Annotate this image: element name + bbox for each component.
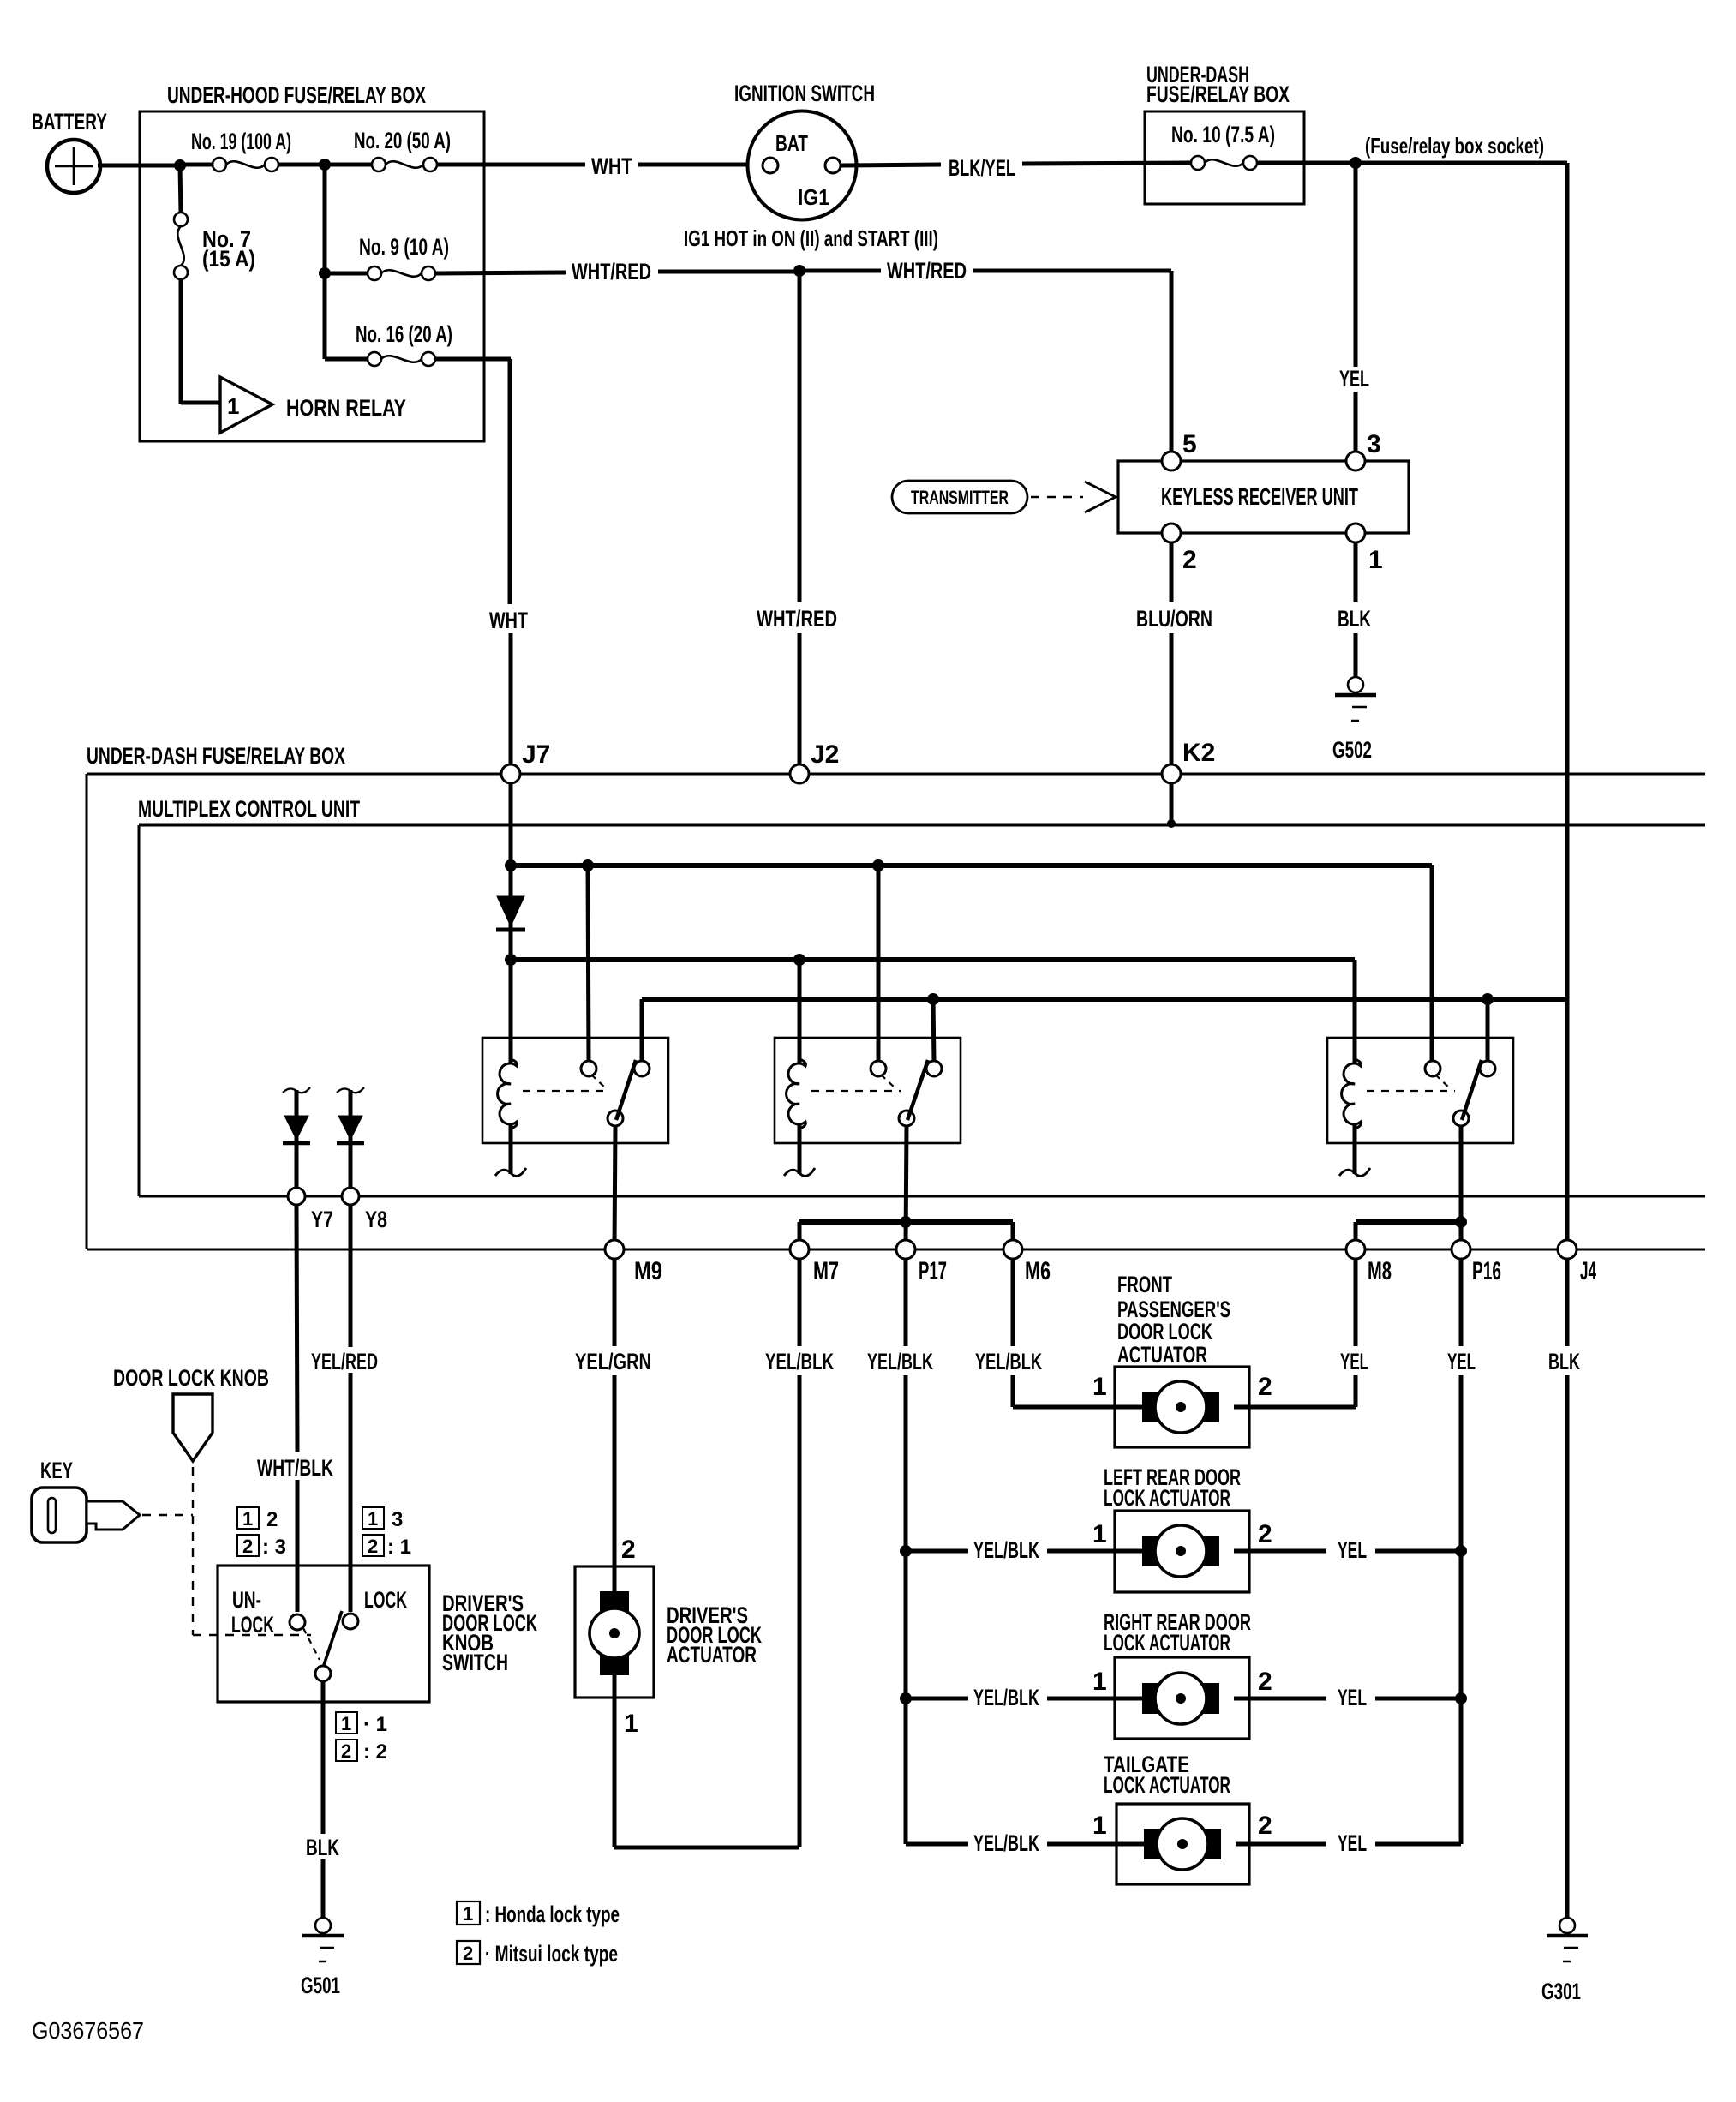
svg-text:J2: J2	[811, 740, 839, 769]
svg-text:UNDER-HOOD FUSE/RELAY BOX: UNDER-HOOD FUSE/RELAY BOX	[167, 82, 426, 108]
ground G301	[1541, 1918, 1588, 2004]
svg-text:J4: J4	[1580, 1257, 1596, 1285]
connector P17	[896, 1240, 947, 1285]
node bus1 relay2 tap	[872, 859, 884, 871]
svg-text:P16: P16	[1472, 1257, 1501, 1285]
node P17 bracket junction	[900, 1216, 912, 1228]
svg-text:YEL: YEL	[1447, 1349, 1476, 1374]
door lock knob	[113, 1365, 269, 1461]
svg-text:2: 2	[463, 1943, 473, 1964]
svg-text:M7: M7	[813, 1257, 839, 1285]
svg-text:ACTUATOR: ACTUATOR	[1117, 1342, 1207, 1368]
svg-text:WHT/RED: WHT/RED	[757, 606, 837, 632]
svg-text:FUSE/RELAY BOX: FUSE/RELAY BOX	[1146, 81, 1290, 107]
svg-text:G501: G501	[301, 1973, 340, 1998]
svg-text:IG1: IG1	[798, 184, 829, 210]
lock-type annotation above unlock	[237, 1507, 286, 1559]
svg-text:1: 1	[463, 1903, 473, 1925]
driver's door lock actuator	[575, 1566, 762, 1698]
pin 2 driver actuator	[621, 1536, 636, 1564]
svg-text:2: 2	[266, 1508, 278, 1531]
wire YEL M8 return	[1234, 1259, 1368, 1407]
svg-text:YEL/BLK: YEL/BLK	[975, 1349, 1042, 1374]
svg-text:1: 1	[624, 1710, 638, 1738]
svg-text:2: 2	[1258, 1668, 1272, 1696]
wire WHT/RED fuse9 to J2 drop	[435, 259, 795, 284]
svg-text:G301: G301	[1541, 1979, 1581, 2004]
svg-text:Y8: Y8	[365, 1207, 387, 1232]
svg-text:LOCK: LOCK	[364, 1587, 407, 1613]
node bus1 left junction	[505, 859, 517, 871]
pin 2 left rear actuator	[1258, 1520, 1272, 1548]
svg-text:M8: M8	[1368, 1257, 1392, 1285]
fuse No.16 (20 A)	[356, 321, 452, 366]
svg-text:SWITCH: SWITCH	[442, 1650, 508, 1675]
svg-text:BLK/YEL: BLK/YEL	[949, 155, 1015, 181]
svg-text:IG1 HOT in ON (II) and START (: IG1 HOT in ON (II) and START (III)	[684, 225, 938, 251]
transmitter	[892, 481, 1027, 513]
connector M8	[1346, 1240, 1392, 1285]
svg-text:BLK: BLK	[1338, 606, 1371, 632]
connector K2	[1162, 739, 1215, 783]
under-hood fuse/relay box	[140, 82, 484, 441]
node bus3 relay2 tap	[927, 993, 939, 1005]
svg-text:2: 2	[242, 1536, 253, 1557]
connector M7	[790, 1240, 839, 1285]
front passenger's door lock actuator	[1115, 1272, 1249, 1447]
lock-type annotation above lock	[362, 1507, 411, 1559]
wire relay2 left contact feed	[877, 865, 881, 1063]
svg-text:LOCK ACTUATOR: LOCK ACTUATOR	[1104, 1485, 1230, 1511]
node YEL branch junction	[1350, 157, 1362, 169]
bracket wire M8-P16	[1356, 1222, 1461, 1244]
door lock relay 1 (driver)	[482, 1038, 668, 1176]
svg-text:: 1: : 1	[387, 1536, 411, 1559]
node fuse20 junction	[319, 159, 331, 171]
figure number G03676567	[32, 2017, 144, 2044]
fuse No.7 (15 A)	[174, 165, 255, 279]
door lock relay 3	[1327, 1038, 1513, 1176]
node P17 right-rear tap	[900, 1692, 912, 1704]
svg-text:DOOR LOCK: DOOR LOCK	[1117, 1319, 1212, 1344]
under-dash fuse/relay box (top)	[1145, 62, 1304, 204]
svg-text:· Mitsui lock type: · Mitsui lock type	[485, 1941, 618, 1967]
wire J2 to relay2 coil	[798, 960, 802, 1063]
wire K2 stub to multiplex top	[1167, 783, 1176, 828]
svg-text:1: 1	[368, 1508, 378, 1530]
fuse No.19 (100 A)	[180, 129, 291, 171]
svg-text:1: 1	[1092, 1812, 1107, 1840]
node P16 bracket junction	[1455, 1216, 1467, 1228]
switch lever	[324, 1611, 342, 1665]
wire fuse/relay box socket down to J4	[1565, 163, 1570, 1918]
svg-text:3: 3	[392, 1508, 403, 1531]
pin 1 driver actuator	[624, 1710, 638, 1738]
connector P16	[1452, 1240, 1501, 1285]
connector M9	[605, 1240, 662, 1285]
ground G502	[1332, 677, 1376, 763]
svg-text:1: 1	[1368, 546, 1383, 574]
svg-text:FRONT: FRONT	[1117, 1272, 1172, 1297]
wire Y7 to unlock switch	[296, 1206, 297, 1612]
svg-text:: 3: : 3	[262, 1536, 286, 1559]
wire relay1 common to M9	[614, 1126, 615, 1247]
wire BLK pin1 to ground	[1338, 542, 1371, 677]
svg-text:ACTUATOR: ACTUATOR	[667, 1642, 757, 1668]
svg-text:YEL: YEL	[1338, 1830, 1367, 1856]
label BLK on J4 wire	[1548, 1349, 1580, 1374]
svg-text:(15 A): (15 A)	[202, 246, 255, 272]
pin 2	[1162, 524, 1197, 574]
lock-type annotation below switch	[336, 1712, 387, 1764]
wire YEL/BLK P17 trunk	[867, 1259, 968, 1844]
diode D1 (multiplex)	[496, 896, 525, 930]
wire YEL P16 trunk	[1375, 1259, 1476, 1844]
svg-text:2: 2	[1182, 546, 1197, 574]
svg-text:WHT/RED: WHT/RED	[572, 259, 651, 284]
label WHT/BLK	[257, 1455, 333, 1481]
svg-text:· 1: · 1	[363, 1713, 387, 1736]
wire relay2 common to P17 junction	[906, 1126, 907, 1244]
pin 1 front passenger actuator	[1092, 1373, 1107, 1401]
connector J2	[790, 740, 839, 783]
bus wire 2 (coil feed)	[511, 960, 1355, 1063]
node bus2 J2 junction	[793, 954, 805, 966]
svg-text:YEL/RED: YEL/RED	[311, 1349, 378, 1374]
svg-text:No. 16 (20 A): No. 16 (20 A)	[356, 321, 452, 347]
wire relay3 common to P16 junction	[1459, 1126, 1464, 1244]
svg-text:YEL: YEL	[1339, 366, 1369, 392]
svg-text:G502: G502	[1332, 737, 1372, 763]
svg-text:YEL/GRN: YEL/GRN	[575, 1349, 651, 1374]
fuse No.20 (50 A)	[354, 128, 451, 171]
svg-text:1: 1	[227, 393, 239, 419]
svg-text:G03676567: G03676567	[32, 2017, 144, 2044]
svg-text:No. 20 (50 A): No. 20 (50 A)	[354, 128, 451, 153]
svg-text:1: 1	[1092, 1668, 1107, 1696]
svg-text:P17: P17	[919, 1257, 947, 1285]
pin 1 right rear actuator	[1092, 1668, 1107, 1696]
svg-text:YEL: YEL	[1340, 1349, 1368, 1374]
svg-text:3: 3	[1367, 430, 1381, 458]
ignition switch	[684, 81, 938, 251]
svg-text:J7: J7	[522, 740, 550, 769]
wire WHT to ignition switch	[437, 153, 764, 179]
svg-text:YEL/BLK: YEL/BLK	[867, 1349, 933, 1374]
svg-text:2: 2	[1258, 1520, 1272, 1548]
pin 5	[1162, 430, 1197, 470]
diode Y8 branch	[337, 1087, 364, 1194]
wire YEL/BLK M6 to front passenger actuator	[975, 1259, 1145, 1407]
svg-text:K2: K2	[1182, 739, 1215, 767]
svg-text:M9: M9	[634, 1257, 662, 1285]
svg-text:BAT: BAT	[775, 130, 808, 156]
wire BLK/YEL ignition to under-dash fuse box	[841, 155, 1191, 181]
wire YEL right rear actuator to P16	[1234, 1685, 1461, 1710]
wire fuse19 to fuse20	[278, 163, 372, 167]
pin 3	[1346, 430, 1381, 470]
svg-text:UN-: UN-	[232, 1587, 261, 1613]
label YEL/RED	[311, 1349, 378, 1374]
pin 2 tailgate actuator	[1258, 1812, 1272, 1840]
svg-text:(Fuse/relay box socket): (Fuse/relay box socket)	[1365, 133, 1544, 159]
node bus1 relay1 tap	[582, 859, 594, 871]
svg-text:TRANSMITTER: TRANSMITTER	[911, 487, 1009, 508]
pin 1	[1346, 524, 1383, 574]
svg-text:KEYLESS RECEIVER UNIT: KEYLESS RECEIVER UNIT	[1161, 483, 1358, 510]
node P17 left-rear tap	[900, 1545, 912, 1557]
connector M6	[1003, 1240, 1051, 1285]
pin 2 right rear actuator	[1258, 1668, 1272, 1696]
node J2 branch junction	[793, 265, 805, 277]
svg-text:No. 19 (100 A): No. 19 (100 A)	[191, 129, 291, 154]
key	[32, 1458, 140, 1542]
legend mitsui lock type	[457, 1941, 618, 1967]
wire fuse9 branch	[323, 165, 327, 273]
svg-text:IGNITION SWITCH: IGNITION SWITCH	[734, 81, 875, 106]
pin 2 front passenger actuator	[1258, 1373, 1272, 1401]
connector J4	[1558, 1240, 1596, 1285]
dashed key linkage	[142, 1467, 311, 1635]
svg-text:2: 2	[341, 1740, 351, 1762]
svg-text:2: 2	[621, 1536, 636, 1564]
svg-text:YEL/BLK: YEL/BLK	[973, 1685, 1039, 1710]
svg-text:WHT: WHT	[591, 153, 632, 179]
wire Y8 to lock switch	[349, 1206, 353, 1612]
wire YEL tailgate actuator to P16	[1236, 1830, 1367, 1856]
label driver's door lock knob switch	[442, 1590, 537, 1675]
wire WHT/RED to keyless pin5	[804, 258, 1171, 453]
svg-text:: 2: : 2	[363, 1740, 387, 1764]
node battery feed junction	[174, 159, 186, 171]
svg-text:YEL/BLK: YEL/BLK	[765, 1349, 834, 1374]
node P16 right-rear tap	[1455, 1692, 1467, 1704]
wire YEL/BLK to right rear actuator	[906, 1685, 1145, 1710]
wire relay2 right contact feed	[933, 999, 934, 1063]
svg-text:1: 1	[1092, 1520, 1107, 1548]
tailgate lock actuator	[1104, 1752, 1249, 1884]
right rear door lock actuator	[1104, 1609, 1251, 1739]
node bus2 left junction	[505, 954, 517, 966]
wire WHT fuse16 to J7	[435, 359, 528, 771]
svg-text:WHT: WHT	[489, 608, 528, 633]
wire J7 into multiplex	[509, 783, 513, 1063]
legend honda lock type	[457, 1901, 620, 1927]
bracket wire M7-P17-M6	[799, 1222, 1013, 1244]
wire battery to under-hood box	[98, 164, 183, 168]
wire YEL/BLK M7 return	[765, 1259, 834, 1847]
svg-text:LOCK ACTUATOR: LOCK ACTUATOR	[1104, 1772, 1230, 1798]
horn relay	[220, 377, 406, 433]
bus wire 3 (unlock feed)	[642, 999, 1567, 1063]
wire BLU/ORN pin2 to K2	[1136, 542, 1212, 771]
svg-text:2: 2	[1258, 1812, 1272, 1840]
svg-text:BLK: BLK	[306, 1835, 339, 1860]
battery B1	[32, 109, 107, 193]
svg-text:5: 5	[1182, 430, 1197, 458]
left rear door lock actuator	[1104, 1464, 1249, 1592]
svg-text:KEY: KEY	[40, 1458, 73, 1483]
connector Y8	[342, 1188, 387, 1232]
node bus3 relay3 tap	[1482, 993, 1494, 1005]
svg-text:BLU/ORN: BLU/ORN	[1136, 606, 1212, 632]
bus wire 1 (lock feed)	[511, 865, 1432, 1063]
svg-text:2: 2	[1258, 1373, 1272, 1401]
svg-text:WHT/BLK: WHT/BLK	[257, 1455, 333, 1481]
dashed link transmitter to receiver	[1031, 482, 1116, 512]
svg-text:YEL/BLK: YEL/BLK	[973, 1830, 1039, 1856]
svg-text:Y7: Y7	[311, 1207, 333, 1232]
pin 1 left rear actuator	[1092, 1520, 1107, 1548]
svg-text:YEL/BLK: YEL/BLK	[973, 1537, 1039, 1563]
wire fuse16 branch	[325, 273, 368, 359]
connector Y7	[288, 1188, 333, 1232]
svg-text:LOCK: LOCK	[231, 1612, 274, 1638]
svg-text:YEL: YEL	[1338, 1537, 1367, 1563]
svg-text:No. 9 (10 A): No. 9 (10 A)	[359, 234, 449, 260]
svg-text:2: 2	[368, 1536, 378, 1557]
svg-text:BLK: BLK	[1548, 1349, 1580, 1374]
wire fuse10 to socket corner	[1257, 133, 1567, 163]
svg-text:DOOR LOCK KNOB: DOOR LOCK KNOB	[113, 1365, 269, 1391]
wire YEL/GRN M9 to driver actuator	[575, 1259, 651, 1594]
fuse No.10 (7.5 A)	[1171, 122, 1275, 170]
svg-text:: Honda lock type: : Honda lock type	[485, 1901, 620, 1927]
multiplex control unit box	[138, 796, 1705, 1196]
driver's door lock knob switch	[218, 1566, 429, 1702]
wire YEL to keyless pin3	[1339, 163, 1369, 453]
ground G501	[301, 1918, 344, 1998]
wire YEL/BLK to tailgate actuator	[973, 1830, 1146, 1856]
wire YEL/BLK to left rear actuator	[906, 1537, 1145, 1563]
svg-text:1: 1	[242, 1508, 253, 1530]
under-dash fuse/relay box (main)	[87, 743, 1705, 1249]
svg-text:HORN RELAY: HORN RELAY	[286, 395, 406, 421]
svg-text:MULTIPLEX CONTROL UNIT: MULTIPLEX CONTROL UNIT	[138, 796, 360, 822]
pin 1 tailgate actuator	[1092, 1812, 1107, 1840]
wire WHT/RED ignition drop to J2	[757, 271, 837, 771]
svg-text:BATTERY: BATTERY	[32, 109, 107, 135]
wire driver actuator pin1 loop	[614, 1673, 799, 1847]
wire relay1 left contact feed	[588, 865, 589, 1063]
wire YEL left rear actuator to P16	[1234, 1537, 1461, 1563]
svg-text:1: 1	[341, 1713, 351, 1734]
svg-text:No. 10 (7.5 A): No. 10 (7.5 A)	[1171, 122, 1275, 147]
node P16 left-rear tap	[1455, 1545, 1467, 1557]
node fuse9 junction	[319, 267, 331, 279]
wire fuse7 to horn relay	[181, 279, 222, 404]
keyless receiver unit	[1118, 461, 1409, 533]
door lock relay 2	[775, 1038, 961, 1176]
svg-text:1: 1	[1092, 1373, 1107, 1401]
svg-text:UNDER-DASH FUSE/RELAY BOX: UNDER-DASH FUSE/RELAY BOX	[87, 743, 345, 769]
svg-text:M6: M6	[1025, 1257, 1051, 1285]
wire BLK switch common to ground	[306, 1680, 339, 1918]
connector J7	[501, 740, 550, 783]
svg-text:YEL: YEL	[1338, 1685, 1367, 1710]
fuse No.9 (10 A)	[325, 234, 449, 280]
wire relay3 right contact feed	[1486, 999, 1490, 1063]
svg-text:WHT/RED: WHT/RED	[887, 258, 967, 284]
svg-text:LOCK ACTUATOR: LOCK ACTUATOR	[1104, 1630, 1230, 1656]
diode Y7 branch	[283, 1087, 310, 1194]
